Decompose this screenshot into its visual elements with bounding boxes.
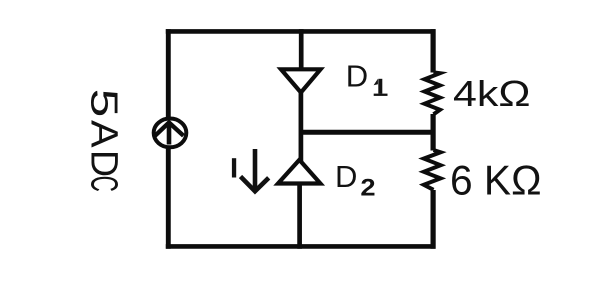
svg-text:2: 2: [360, 175, 375, 202]
current source I1 arrow head: [155, 123, 184, 136]
svg-text:A: A: [82, 120, 124, 148]
svg-text:D: D: [346, 58, 368, 93]
resistor R1 zigzag: [425, 72, 441, 114]
current label I arrow shaft: [253, 149, 258, 189]
svg-text:D: D: [335, 159, 357, 194]
svg-text:4kΩ: 4kΩ: [453, 73, 531, 114]
diode D2 triangle: [278, 160, 320, 184]
svg-text:5: 5: [82, 89, 124, 118]
svg-text:6 KΩ: 6 KΩ: [450, 156, 542, 203]
wire left lower: [166, 149, 171, 249]
diode D1 triangle: [281, 69, 321, 92]
wire middle horizontal: [301, 130, 434, 135]
wire top: [166, 29, 436, 34]
wire right lower: [431, 190, 436, 249]
wire middle branch center: [299, 93, 304, 161]
wire right between resistors: [431, 114, 436, 151]
current label I arrow head: [241, 177, 269, 192]
wire left upper: [166, 29, 171, 117]
wire right upper: [431, 29, 436, 72]
wire middle branch upper: [299, 29, 304, 72]
wire bottom: [166, 244, 436, 249]
svg-text:D: D: [82, 150, 124, 177]
wire middle branch lower: [297, 184, 302, 249]
label D1 subscript 1: [374, 79, 388, 96]
current source I1 circle: [154, 118, 187, 147]
current source I1 arrow shaft: [167, 124, 172, 145]
svg-text:C: C: [82, 176, 124, 192]
label 5 A DC: [82, 89, 124, 192]
label I: [232, 158, 236, 177]
resistor R2 zigzag: [424, 150, 441, 190]
